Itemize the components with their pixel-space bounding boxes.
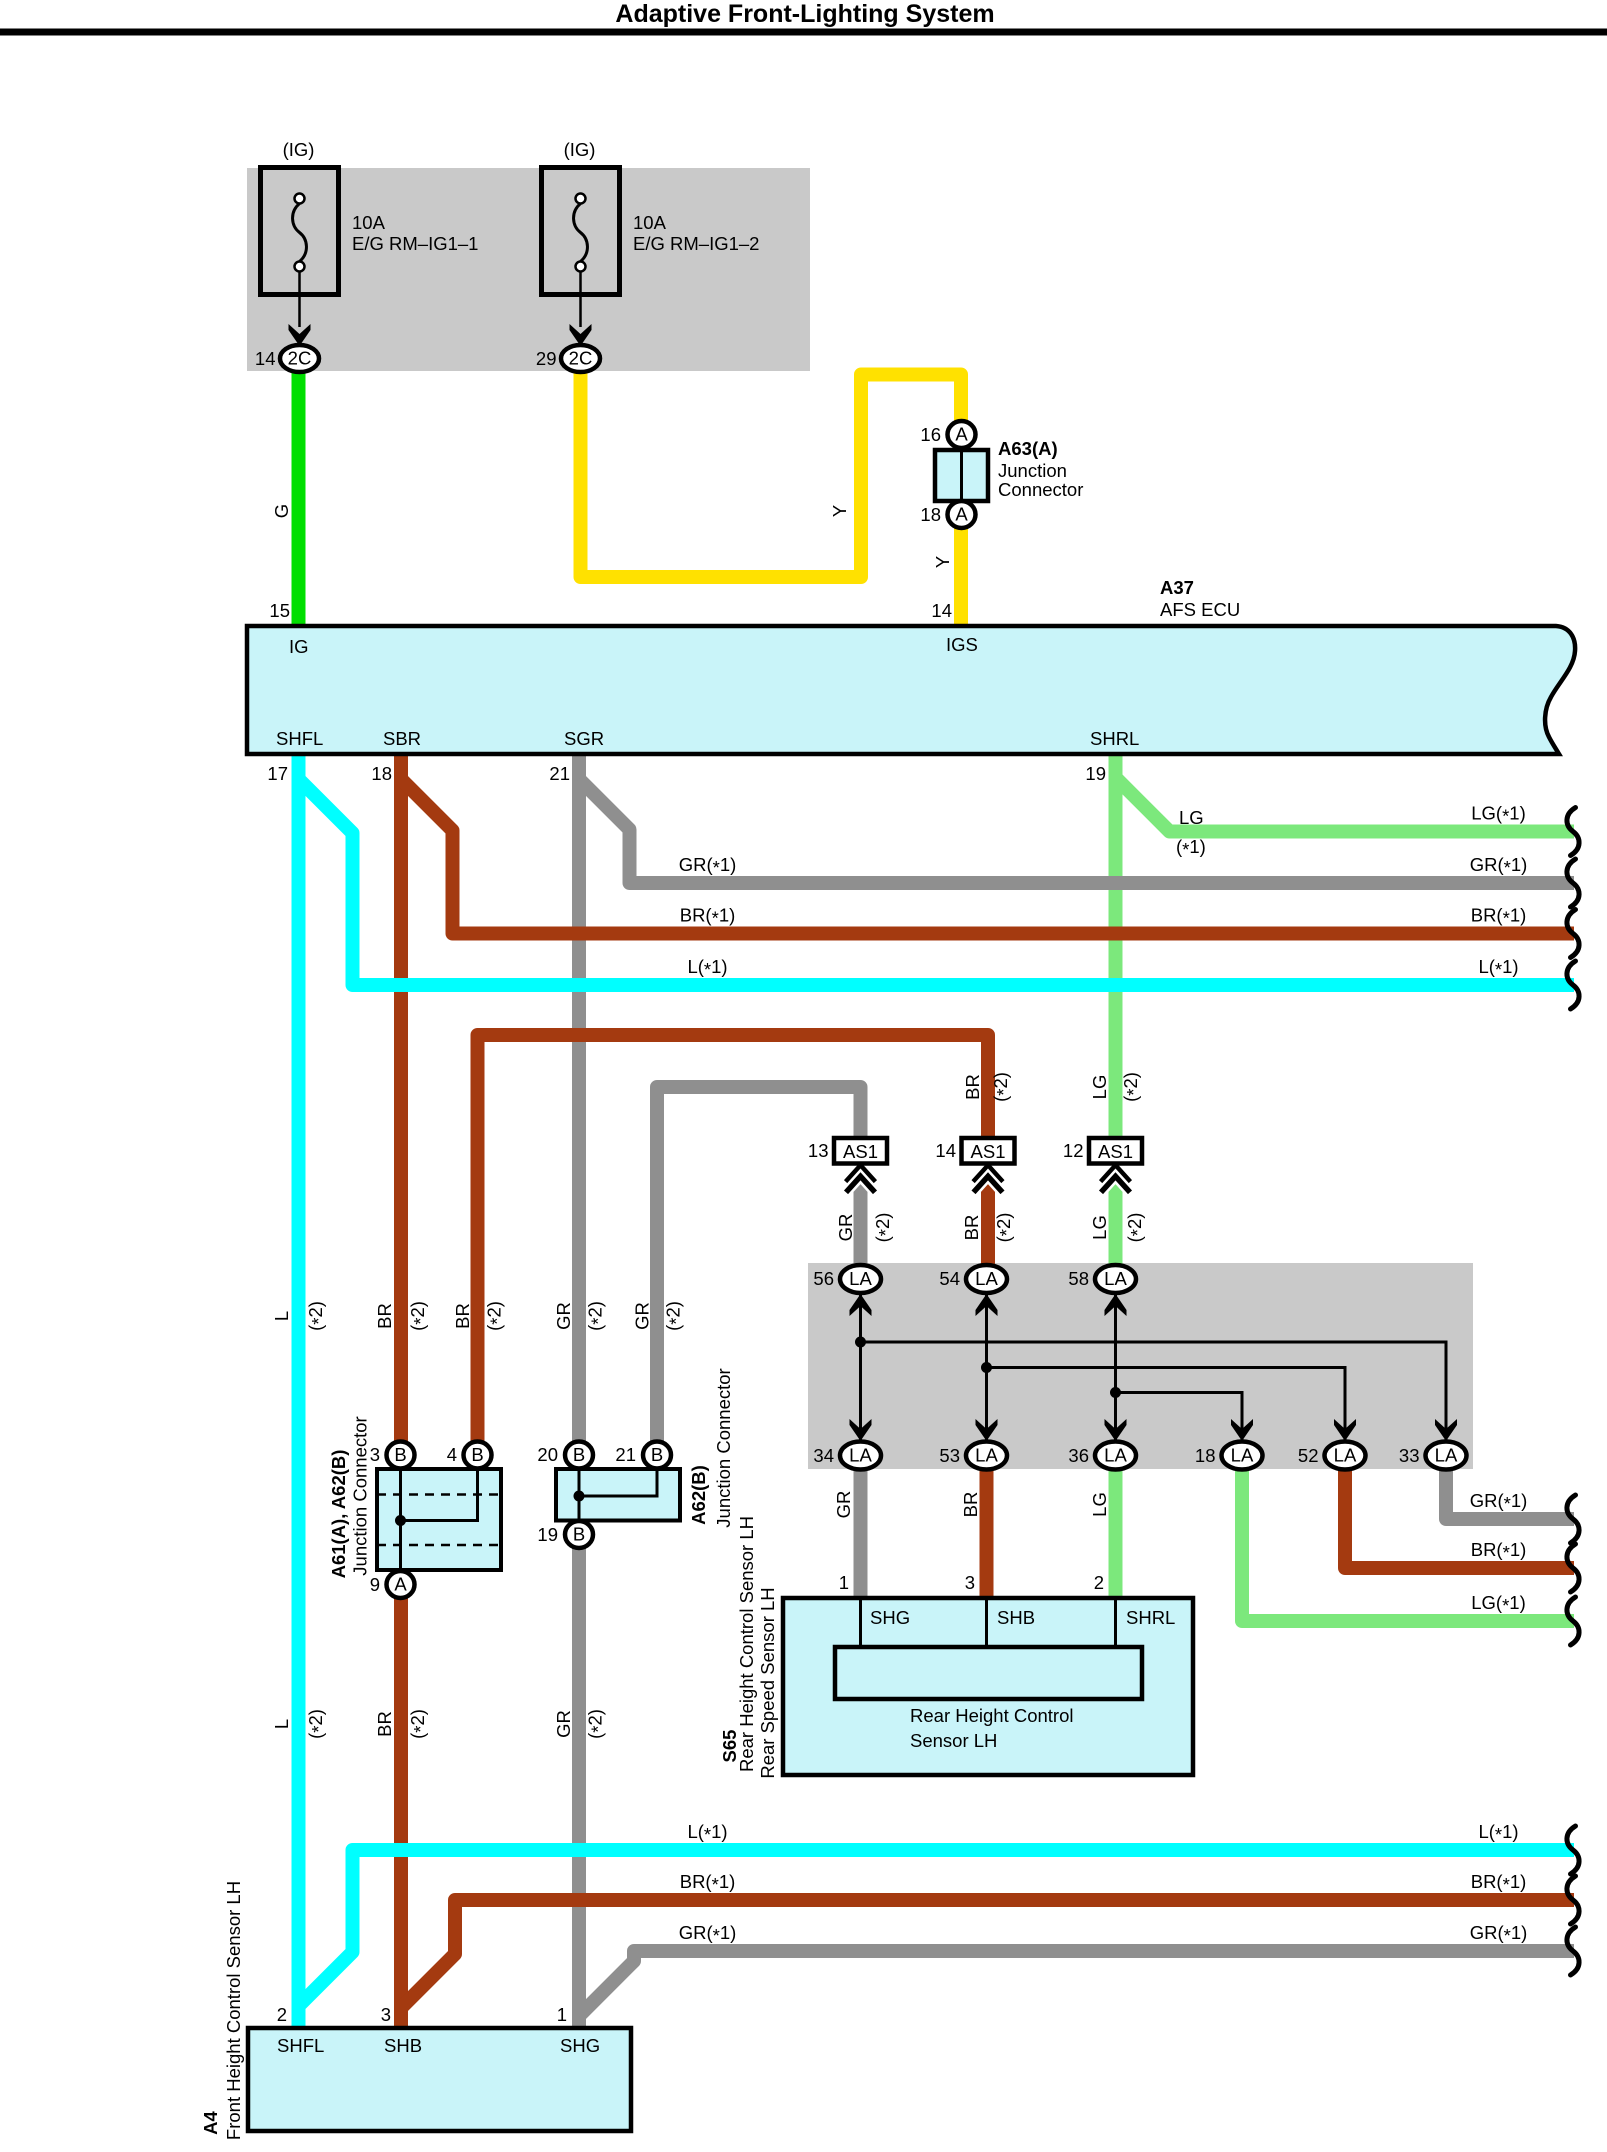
svg-text:GR: GR <box>632 1302 653 1330</box>
svg-text:LA: LA <box>975 1268 998 1289</box>
svg-text:AS1: AS1 <box>971 1141 1006 1162</box>
svg-text:L(*1): L(*1) <box>687 1821 727 1845</box>
svg-text:BR: BR <box>374 1303 395 1329</box>
svg-text:BR(*1): BR(*1) <box>1471 1539 1527 1563</box>
svg-text:LA: LA <box>1435 1445 1458 1466</box>
svg-text:IG: IG <box>289 636 309 657</box>
svg-text:A63(A): A63(A) <box>998 438 1058 459</box>
svg-text:SHFL: SHFL <box>277 2035 324 2056</box>
svg-text:LA: LA <box>849 1445 872 1466</box>
svg-text:Sensor LH: Sensor LH <box>910 1730 997 1751</box>
svg-text:B: B <box>394 1444 406 1465</box>
svg-text:9: 9 <box>370 1574 380 1595</box>
svg-text:GR: GR <box>553 1710 574 1738</box>
svg-text:E/G RM–IG1–2: E/G RM–IG1–2 <box>633 233 759 254</box>
svg-text:36: 36 <box>1068 1445 1089 1466</box>
svg-text:(*2): (*2) <box>1120 1072 1144 1102</box>
svg-text:(*2): (*2) <box>993 1213 1017 1243</box>
svg-text:L(*1): L(*1) <box>687 956 727 980</box>
svg-text:GR(*1): GR(*1) <box>679 854 737 878</box>
svg-text:Y: Y <box>829 505 850 517</box>
svg-text:LA: LA <box>975 1445 998 1466</box>
svg-text:Rear Speed Sensor LH: Rear Speed Sensor LH <box>757 1587 778 1778</box>
svg-text:B: B <box>651 1444 663 1465</box>
svg-text:A: A <box>394 1574 407 1595</box>
svg-text:BR: BR <box>962 1074 983 1100</box>
svg-text:E/G RM–IG1–1: E/G RM–IG1–1 <box>352 233 478 254</box>
svg-text:SHB: SHB <box>997 1607 1035 1628</box>
svg-text:53: 53 <box>939 1445 960 1466</box>
svg-text:AS1: AS1 <box>1098 1141 1133 1162</box>
svg-text:56: 56 <box>813 1268 834 1289</box>
svg-text:(*2): (*2) <box>407 1301 431 1331</box>
svg-text:19: 19 <box>537 1524 558 1545</box>
svg-text:A61(A), A62(B): A61(A), A62(B) <box>328 1450 349 1579</box>
svg-text:18: 18 <box>371 763 392 784</box>
svg-text:GR(*1): GR(*1) <box>679 1922 737 1946</box>
svg-text:(*2): (*2) <box>990 1072 1014 1102</box>
svg-text:54: 54 <box>939 1268 960 1289</box>
svg-text:3: 3 <box>370 1444 380 1465</box>
svg-text:LA: LA <box>1334 1445 1357 1466</box>
svg-text:B: B <box>471 1444 483 1465</box>
svg-text:10A: 10A <box>352 212 386 233</box>
svg-text:L(*1): L(*1) <box>1478 956 1518 980</box>
svg-text:SHRL: SHRL <box>1090 728 1139 749</box>
svg-text:LG: LG <box>1089 1215 1110 1240</box>
svg-text:(*2): (*2) <box>1124 1213 1148 1243</box>
svg-text:14: 14 <box>255 348 276 369</box>
svg-text:SHG: SHG <box>870 1607 910 1628</box>
svg-text:18: 18 <box>1195 1445 1216 1466</box>
svg-text:(*2): (*2) <box>872 1213 896 1243</box>
svg-text:LA: LA <box>1231 1445 1254 1466</box>
svg-text:A: A <box>955 504 968 525</box>
svg-text:AFS ECU: AFS ECU <box>1160 599 1240 620</box>
svg-text:G: G <box>271 504 292 518</box>
svg-text:1: 1 <box>839 1572 849 1593</box>
svg-text:GR(*1): GR(*1) <box>1470 1490 1528 1514</box>
svg-text:LA: LA <box>1104 1445 1127 1466</box>
svg-text:13: 13 <box>808 1140 829 1161</box>
svg-text:BR: BR <box>452 1303 473 1329</box>
svg-text:17: 17 <box>267 763 288 784</box>
svg-text:BR(*1): BR(*1) <box>1471 905 1527 929</box>
svg-text:SGR: SGR <box>564 728 604 749</box>
svg-text:BR: BR <box>374 1711 395 1737</box>
svg-text:58: 58 <box>1068 1268 1089 1289</box>
svg-text:4: 4 <box>447 1444 457 1465</box>
svg-text:B: B <box>573 1524 585 1545</box>
svg-text:Junction Connector: Junction Connector <box>350 1416 371 1575</box>
svg-text:16: 16 <box>920 424 941 445</box>
svg-text:Rear Height Control: Rear Height Control <box>910 1705 1074 1726</box>
svg-text:GR: GR <box>833 1491 854 1519</box>
svg-text:Y: Y <box>932 556 953 568</box>
svg-text:(*2): (*2) <box>585 1709 609 1739</box>
svg-text:Rear Height Control Sensor LH: Rear Height Control Sensor LH <box>736 1516 757 1772</box>
svg-text:SBR: SBR <box>383 728 421 749</box>
svg-text:IGS: IGS <box>946 634 978 655</box>
svg-text:A: A <box>955 424 968 445</box>
svg-text:Junction: Junction <box>998 460 1067 481</box>
svg-text:14: 14 <box>931 600 952 621</box>
svg-text:LA: LA <box>849 1268 872 1289</box>
svg-text:B: B <box>573 1444 585 1465</box>
svg-text:33: 33 <box>1399 1445 1420 1466</box>
svg-text:(*2): (*2) <box>663 1301 687 1331</box>
svg-text:2C: 2C <box>569 348 593 369</box>
svg-text:2: 2 <box>1094 1572 1104 1593</box>
svg-text:LA: LA <box>1104 1268 1127 1289</box>
svg-text:LG(*1): LG(*1) <box>1471 1592 1526 1616</box>
svg-text:BR: BR <box>960 1492 981 1518</box>
svg-text:A37: A37 <box>1160 577 1194 598</box>
svg-text:GR: GR <box>553 1302 574 1330</box>
svg-text:(IG): (IG) <box>283 139 315 160</box>
svg-text:19: 19 <box>1085 763 1106 784</box>
svg-text:SHB: SHB <box>384 2035 422 2056</box>
svg-text:SHFL: SHFL <box>276 728 323 749</box>
svg-text:BR(*1): BR(*1) <box>680 1871 736 1895</box>
svg-text:Connector: Connector <box>998 479 1083 500</box>
svg-text:LG(*1): LG(*1) <box>1471 803 1526 827</box>
svg-text:(*2): (*2) <box>305 1709 329 1739</box>
svg-text:10A: 10A <box>633 212 667 233</box>
svg-text:LG: LG <box>1089 1075 1110 1100</box>
svg-text:3: 3 <box>381 2004 391 2025</box>
svg-text:Adaptive Front-Lighting System: Adaptive Front-Lighting System <box>615 0 994 28</box>
svg-text:2: 2 <box>277 2004 287 2025</box>
svg-text:(*2): (*2) <box>305 1301 329 1331</box>
svg-text:L: L <box>271 1719 292 1729</box>
svg-text:BR: BR <box>961 1215 982 1241</box>
svg-text:AS1: AS1 <box>843 1141 878 1162</box>
svg-text:BR(*1): BR(*1) <box>1471 1871 1527 1895</box>
svg-text:SHG: SHG <box>560 2035 600 2056</box>
svg-text:GR(*1): GR(*1) <box>1470 854 1528 878</box>
svg-text:20: 20 <box>537 1444 558 1465</box>
svg-text:34: 34 <box>813 1445 834 1466</box>
svg-text:BR(*1): BR(*1) <box>680 905 736 929</box>
svg-text:LG: LG <box>1179 807 1204 828</box>
svg-text:Front Height Control Sensor LH: Front Height Control Sensor LH <box>223 1881 244 2140</box>
svg-text:21: 21 <box>549 763 570 784</box>
svg-text:29: 29 <box>536 348 557 369</box>
svg-text:18: 18 <box>920 504 941 525</box>
svg-text:1: 1 <box>557 2004 567 2025</box>
svg-text:(IG): (IG) <box>564 139 596 160</box>
svg-text:LG: LG <box>1089 1492 1110 1517</box>
svg-text:GR(*1): GR(*1) <box>1470 1922 1528 1946</box>
svg-text:(*2): (*2) <box>484 1301 508 1331</box>
svg-text:A4: A4 <box>200 2110 221 2134</box>
svg-text:14: 14 <box>935 1140 956 1161</box>
svg-text:L(*1): L(*1) <box>1478 1821 1518 1845</box>
svg-text:L: L <box>271 1311 292 1321</box>
svg-text:(*1): (*1) <box>1176 836 1206 860</box>
svg-text:52: 52 <box>1298 1445 1319 1466</box>
svg-text:SHRL: SHRL <box>1126 1607 1175 1628</box>
svg-text:2C: 2C <box>288 348 312 369</box>
svg-text:(*2): (*2) <box>585 1301 609 1331</box>
svg-text:A62(B): A62(B) <box>688 1465 709 1525</box>
svg-text:15: 15 <box>269 600 290 621</box>
svg-text:GR: GR <box>835 1214 856 1242</box>
svg-text:(*2): (*2) <box>407 1709 431 1739</box>
svg-text:21: 21 <box>615 1444 636 1465</box>
svg-text:3: 3 <box>965 1572 975 1593</box>
svg-text:Junction Connector: Junction Connector <box>713 1368 734 1527</box>
svg-text:12: 12 <box>1063 1140 1084 1161</box>
